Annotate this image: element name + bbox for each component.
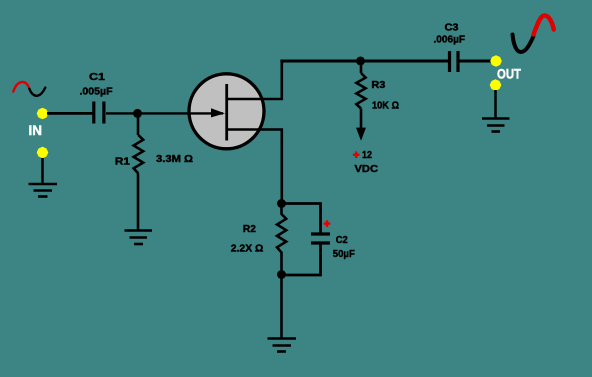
wire: C3 to OUT <box>459 60 491 63</box>
capacitor C1 <box>94 102 104 124</box>
input sine wave (black half) <box>29 88 45 96</box>
svg-text:R3: R3 <box>371 80 385 91</box>
capacitor C2 (electrolytic) <box>311 234 330 243</box>
node OUT (upper terminal) <box>490 55 502 66</box>
drain lead <box>228 62 284 99</box>
wire: junction to C2 top <box>282 204 321 233</box>
resistor R1 <box>134 135 144 174</box>
supply arrowhead (down) <box>356 128 366 141</box>
gate arrowhead <box>211 108 225 117</box>
svg-text:R1: R1 <box>115 157 130 168</box>
node OUT ground terminal <box>490 79 502 90</box>
ground (input) <box>29 184 58 197</box>
wire: junction to R1 <box>137 113 140 135</box>
source lead <box>228 130 282 204</box>
wire: C1 to gate (through junction) <box>106 112 223 114</box>
svg-text:VDC: VDC <box>355 164 379 175</box>
JFET channel bar <box>225 84 228 141</box>
node IN ground terminal <box>37 147 49 158</box>
output sine wave (red half) <box>534 16 554 35</box>
wire: C2 bottom to bottom junction <box>282 245 321 276</box>
output sine wave (black half) <box>513 35 534 53</box>
capacitor C3 <box>450 51 459 72</box>
svg-text:OUT: OUT <box>497 66 521 82</box>
wire: IN node to C1 <box>47 112 93 115</box>
svg-text:50µF: 50µF <box>333 249 355 260</box>
ground (source network) <box>268 339 297 352</box>
svg-text:R2: R2 <box>243 224 256 235</box>
wire: R1 to ground <box>137 174 140 231</box>
node IN (upper terminal) <box>37 108 49 119</box>
resistor R3 <box>356 73 365 109</box>
junction node C (source/R2/C2) <box>277 199 286 208</box>
svg-text:C3: C3 <box>445 23 459 34</box>
wire: top rail drain to C3 <box>280 60 448 63</box>
wire: lower OUT node to ground <box>494 90 497 118</box>
wire: R3 to supply arrow <box>360 109 363 131</box>
JFET Q1 body circle <box>189 74 264 149</box>
wire: R2 to bottom junction <box>280 255 283 275</box>
svg-text:10K Ω: 10K Ω <box>372 101 399 112</box>
junction node A (gate/R1) <box>133 109 142 118</box>
ground (output) <box>482 119 510 132</box>
junction node D (R2/C2 bottom) <box>277 270 286 279</box>
svg-text:2.2X Ω: 2.2X Ω <box>231 244 263 255</box>
svg-text:.006µF: .006µF <box>434 35 466 46</box>
svg-text:C2: C2 <box>336 235 348 246</box>
resistor R2 <box>277 204 286 256</box>
ground (R1) <box>125 231 153 245</box>
svg-text:.005µF: .005µF <box>80 87 113 98</box>
label +12 (plus sign red) <box>353 151 360 158</box>
svg-text:3.3M Ω: 3.3M Ω <box>156 154 193 165</box>
wire: bottom junction to ground <box>280 275 283 338</box>
svg-text:IN: IN <box>29 122 43 138</box>
svg-text:C1: C1 <box>89 72 105 83</box>
junction node B (drain/R3) <box>356 57 365 66</box>
wire: lower IN node to ground <box>41 158 44 183</box>
input sine wave (red half) <box>13 82 29 92</box>
svg-text:12: 12 <box>362 150 372 161</box>
wire: junction to R3 <box>360 61 363 73</box>
label + polarity (red) <box>324 220 331 227</box>
